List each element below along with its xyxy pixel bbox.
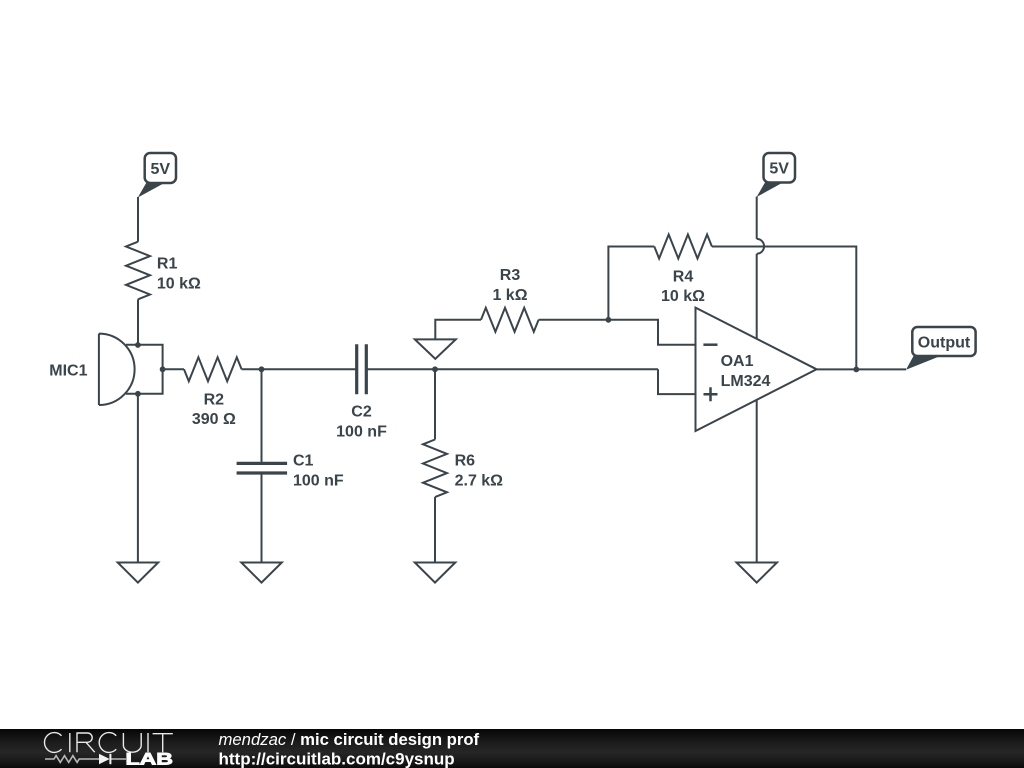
svg-text:mendzac / mic circuit design p: mendzac / mic circuit design prof xyxy=(219,730,480,749)
svg-text:LAB: LAB xyxy=(126,751,174,768)
svg-text:http://circuitlab.com/c9ysnup: http://circuitlab.com/c9ysnup xyxy=(219,750,455,768)
